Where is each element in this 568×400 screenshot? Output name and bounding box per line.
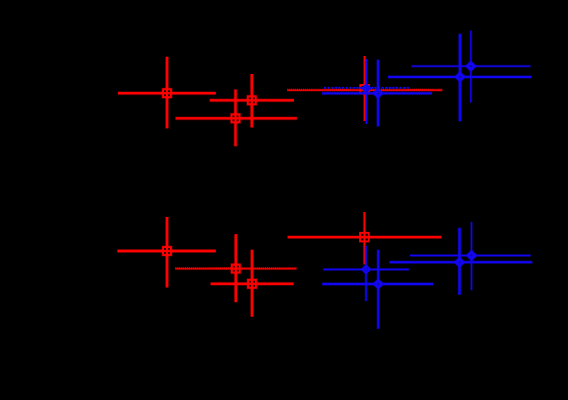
bottom panel : red point E open-square marker xyxy=(231,264,241,274)
top panel : red point B open-square marker xyxy=(231,113,241,123)
bottom panel : red point D open-square marker xyxy=(162,246,172,256)
top panel : blue point K error bars xyxy=(412,31,531,103)
top panel : blue point I diamond marker xyxy=(372,88,383,99)
top panel : red point C open-square marker xyxy=(247,95,257,105)
bottom panel : blue point K2 diamond marker xyxy=(466,250,477,261)
top panel : red point B error bars xyxy=(176,89,297,146)
bottom panel : blue point K2 error bars xyxy=(410,222,531,290)
top panel : blue point H dashed horizontal error bar xyxy=(324,87,409,89)
bottom panel : blue point I2 diamond marker xyxy=(373,278,384,289)
top panel : red point A open-square marker xyxy=(162,88,172,98)
top panel : blue point K diamond marker xyxy=(465,61,476,72)
top panel : blue point I error bars xyxy=(322,60,432,127)
bottom panel : red point F open-square marker xyxy=(247,279,257,289)
top panel : red point G vertical error bar xyxy=(363,56,366,121)
top panel : blue point J error bars xyxy=(388,34,532,122)
bottom panel : red point E dotted horizontal error bar xyxy=(175,267,296,270)
bottom panel : red point G2 error bars xyxy=(288,212,442,265)
bottom panel : blue point J2 diamond marker xyxy=(454,257,465,268)
top panel : red point C error bars xyxy=(210,74,294,128)
bottom panel : blue point H2 error bars xyxy=(323,246,409,301)
bottom panel : red point G2 open-square marker xyxy=(360,233,369,242)
top panel : blue point H vertical error bar xyxy=(365,59,368,124)
top panel : red point G dotted horizontal error bar xyxy=(287,89,442,92)
top panel : blue point H open-diamond marker xyxy=(363,84,371,92)
top panel : red point A error bars xyxy=(118,57,216,129)
bottom panel : blue point H2 open-diamond marker xyxy=(362,266,370,274)
bottom panel : red point E vertical error bar xyxy=(234,234,238,302)
top panel : red point G open-square marker xyxy=(360,85,369,94)
bottom panel : red point D error bars xyxy=(117,217,215,288)
top panel : blue point J diamond marker xyxy=(454,71,465,82)
bottom panel : blue point J2 error bars xyxy=(389,228,532,295)
bottom panel : blue point I2 error bars xyxy=(322,250,433,329)
bottom panel : red point F error bars xyxy=(211,250,294,317)
